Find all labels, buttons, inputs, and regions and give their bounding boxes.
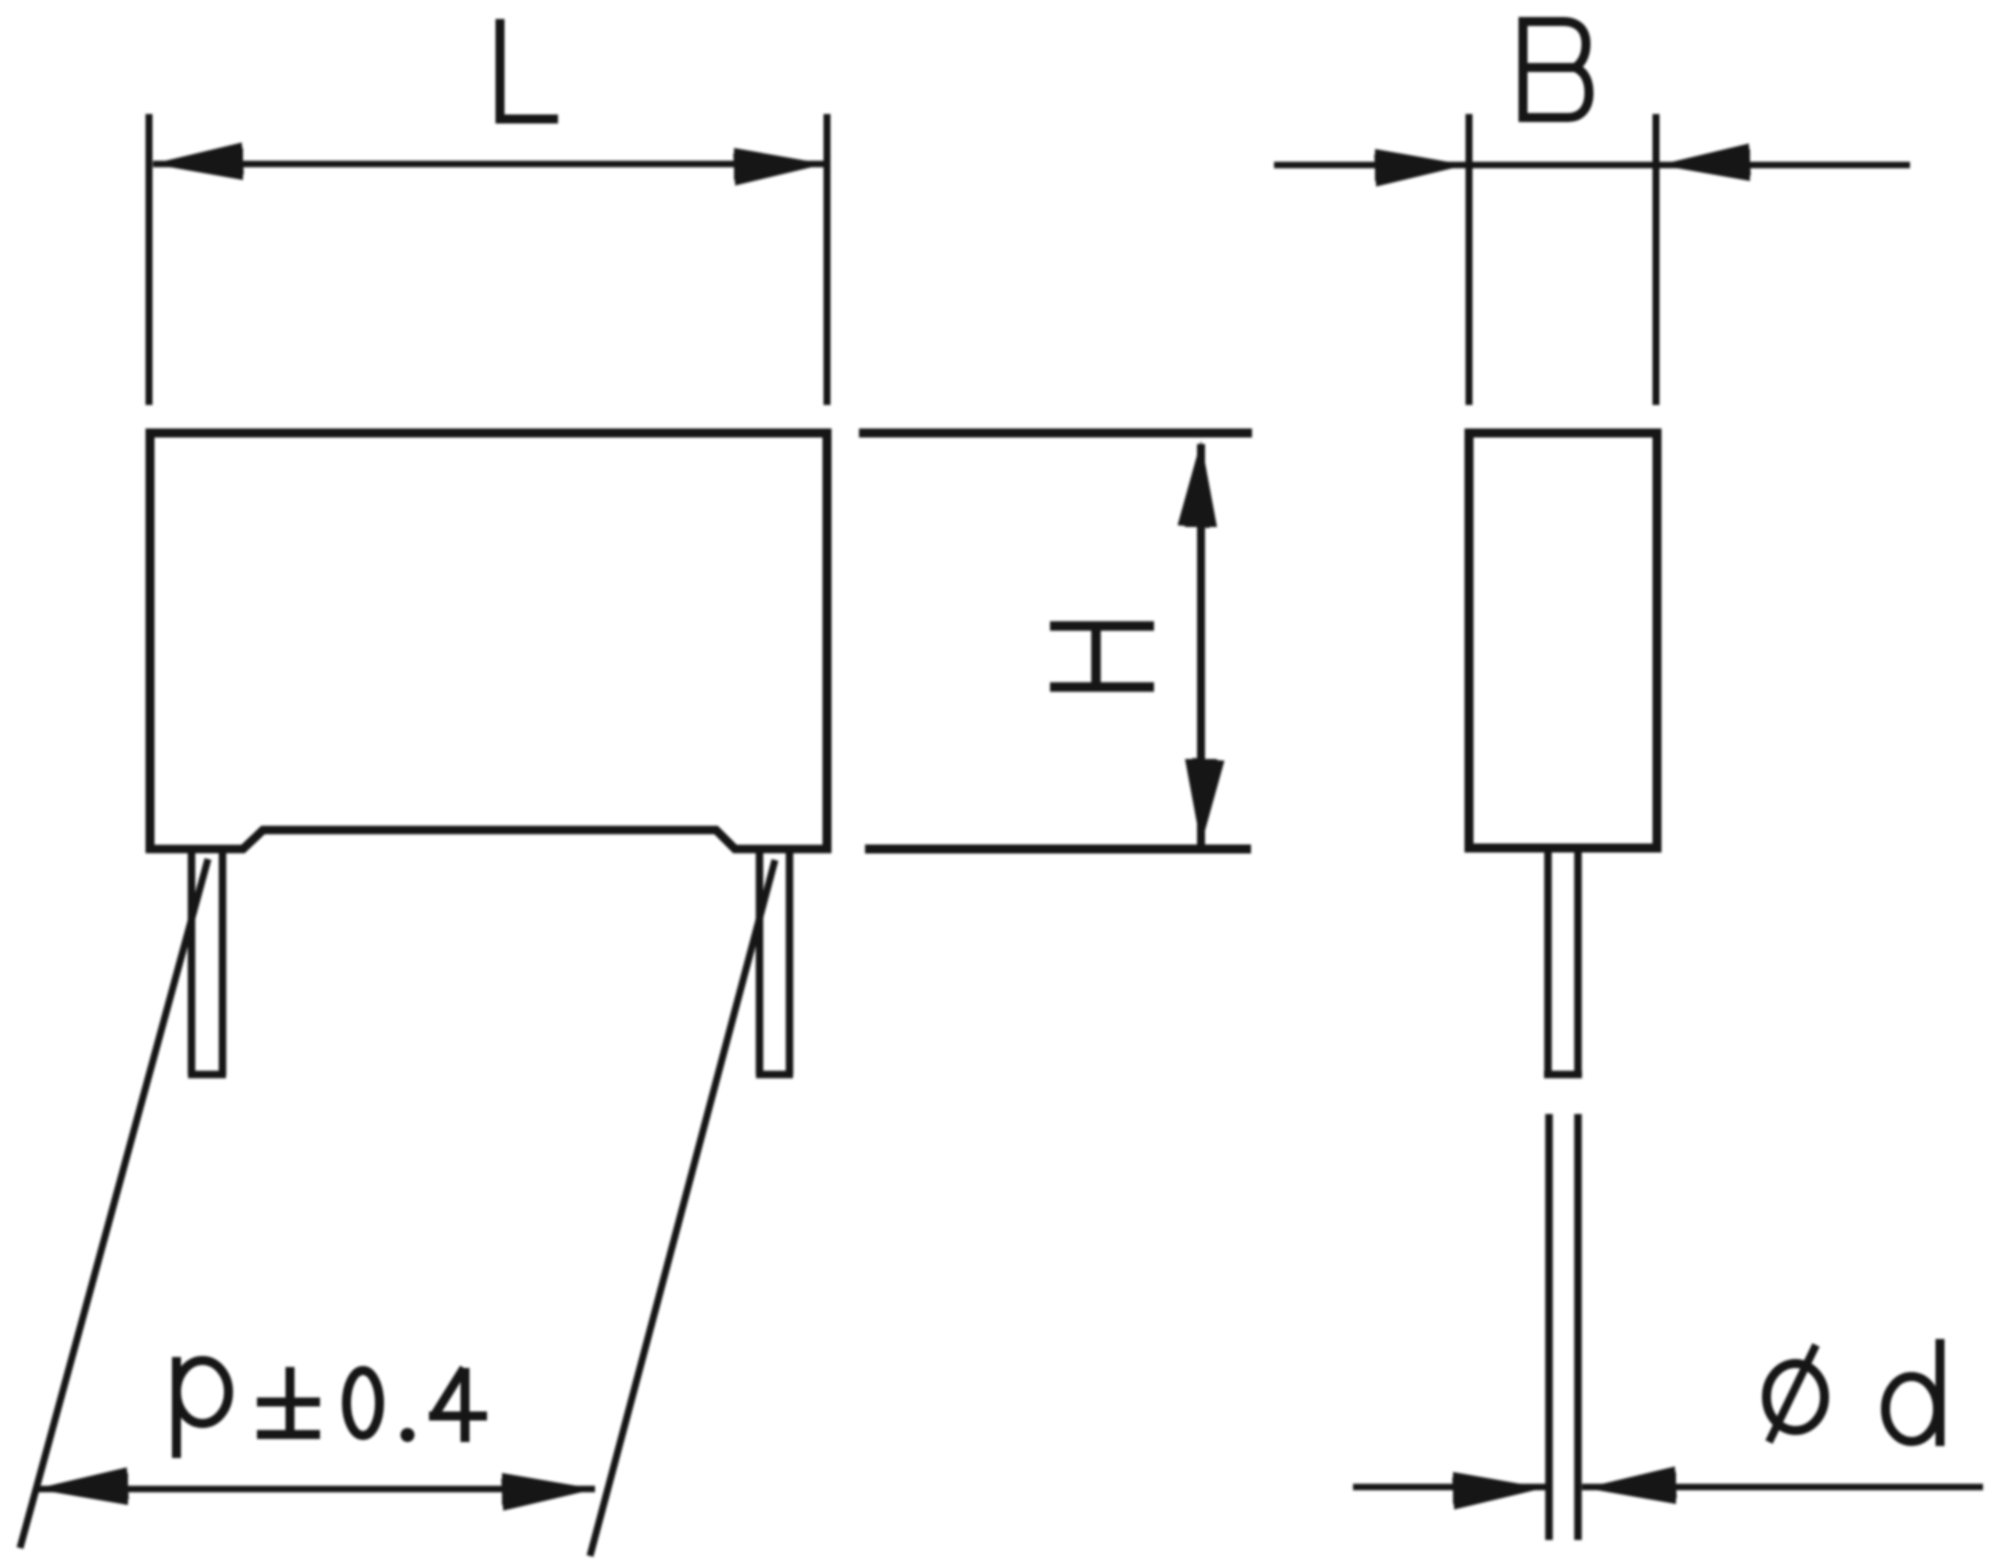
label decimal point <box>401 1428 415 1442</box>
L arrowhead left <box>151 142 244 180</box>
left lead front view <box>188 851 226 1075</box>
L extension line left <box>146 114 153 405</box>
capacitor body front view outline <box>150 433 827 853</box>
letter d <box>1886 1377 1938 1442</box>
B arrowhead pointing right <box>1374 149 1467 187</box>
letter L <box>500 19 558 119</box>
label plus-minus <box>257 1367 320 1435</box>
H arrowhead bottom <box>1185 758 1224 846</box>
right lead front view <box>756 851 793 1075</box>
H extension line top <box>859 429 1252 438</box>
p arrowhead left <box>34 1467 129 1505</box>
diameter arrowhead pointing left <box>1584 1466 1677 1504</box>
letter diameter symbol <box>1767 1364 1825 1431</box>
L arrowhead right <box>733 148 826 186</box>
lead continuation side view <box>1549 1114 1578 1540</box>
L dimension line <box>153 161 824 168</box>
capacitor body front view bottom edge <box>146 830 831 849</box>
L extension line right <box>824 114 831 405</box>
diameter arrowhead pointing right <box>1452 1472 1545 1510</box>
p dimension line <box>35 1486 595 1493</box>
H arrowhead top <box>1178 440 1217 528</box>
letter H rotated <box>1050 626 1154 687</box>
H dimension line <box>1197 444 1205 845</box>
label p <box>172 1357 181 1458</box>
capacitor body side view outline <box>1469 433 1657 848</box>
p arrowhead right <box>501 1473 596 1511</box>
p pointer diagonal right <box>590 860 775 1556</box>
B arrowhead pointing left <box>1658 143 1751 181</box>
p pointer diagonal left <box>20 859 208 1548</box>
letter B <box>1523 17 1589 122</box>
label 0 <box>347 1371 380 1436</box>
B extension line right <box>1653 114 1660 405</box>
H extension line bottom <box>865 845 1251 854</box>
B extension line left <box>1466 114 1473 405</box>
diameter dimension line left <box>1353 1484 1546 1491</box>
B dimension line <box>1274 162 1910 169</box>
label 4 <box>429 1368 487 1442</box>
lead side view <box>1544 851 1582 1075</box>
diameter dimension line right <box>1582 1484 1983 1491</box>
